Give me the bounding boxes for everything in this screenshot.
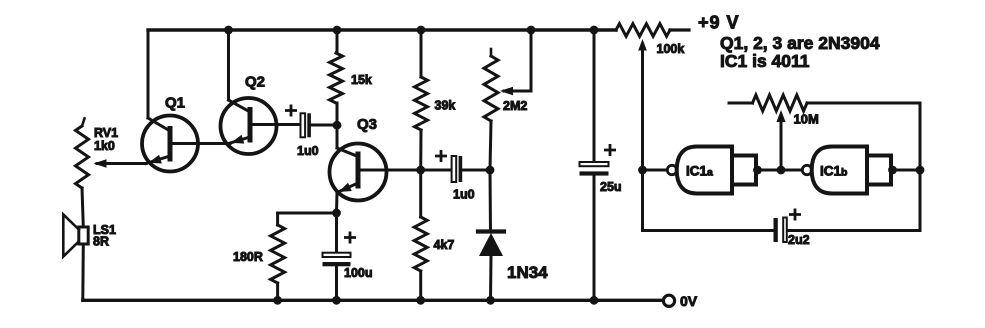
resistor 39k [415,30,428,170]
wire 2M2 wiper feed [504,30,531,91]
svg-text:2M2: 2M2 [503,99,527,113]
potentiometer 2M2 [484,49,498,170]
wire LS1 to 0V rail [81,244,85,300]
node gnd 100u [332,296,341,305]
label 1k0 [94,139,115,153]
svg-text:100k: 100k [657,42,685,56]
wire Q1 emitter to RV1 wiper [97,162,146,165]
label 2u2 [788,233,810,247]
wire 25u to gnd [593,176,596,301]
note Q1,2,3 are 2N3904 [720,33,880,53]
wire Q3 emitter down [335,193,339,214]
svg-text:IC1b: IC1b [820,164,847,179]
label 1u0 (second) [453,188,475,202]
label 1N34 [507,263,548,282]
label 4k7 [434,238,455,252]
node IC1a input [638,166,647,175]
NAND gate IC1a [667,147,756,194]
wire IC1a output to IC1b input [756,169,802,172]
resistor 10M [729,95,920,111]
label 100k [657,42,685,56]
wire emitter node to 180R [278,213,337,225]
svg-text:25u: 25u [600,180,622,194]
resistor 15k [330,30,343,125]
node gnd 25u [590,296,599,305]
label 39k [435,99,456,113]
svg-text:RV1: RV1 [94,126,118,140]
label 1u0 (first) [297,144,319,158]
svg-text:100u: 100u [344,266,373,280]
wire cap to node 15k [311,124,337,127]
wire Q2 collector to rail [227,30,230,100]
wiper arrow 10M [776,110,785,170]
wire 0V bottom rail [83,299,663,302]
node right leg [916,166,925,175]
svg-text:IC1 is 4011: IC1 is 4011 [720,51,810,71]
svg-text:1N34: 1N34 [507,263,548,282]
label IC1b [820,164,847,179]
polarity + (1u0) [286,106,295,115]
svg-text:15k: 15k [351,73,372,87]
note IC1 is 4011 [720,51,810,71]
svg-text:Q2: Q2 [245,74,265,91]
label 180R [233,250,263,264]
label 0V [680,293,698,309]
label IC1a [686,164,713,179]
transistor Q3 [330,144,421,201]
wire 100k to +9V stub [670,28,689,31]
node top rail / Q2 collector [224,26,233,35]
label 10M [794,112,819,127]
NAND gate IC1b [802,147,891,194]
transistor Q2 [221,98,302,154]
svg-text:1k0: 1k0 [94,139,115,153]
polarity + (1u0 #2) [436,151,445,160]
diode 1N34 [478,232,504,257]
svg-text:10M: 10M [794,112,819,127]
potentiometer RV 100k [616,24,670,37]
capacitor 25u [580,162,609,176]
polarity + (100u) [345,233,354,242]
svg-text:Q3: Q3 [357,116,377,133]
wire right leg [919,103,922,231]
node gnd 1N34 [486,296,495,305]
wire IC1b output to right leg [891,169,920,172]
node cap/2M2/1N34 [486,166,495,175]
resistor 180R [271,225,285,300]
capacitor 2u2 [774,218,787,243]
node Q3 emitter / 180R / 100u [332,209,341,218]
label Q2 [245,74,265,91]
svg-text:1u0: 1u0 [297,144,319,158]
node 10M wiper junction [777,166,786,175]
label 100u [344,266,373,280]
label LS1 [93,223,116,237]
label 15k [351,73,372,87]
wire node to Q3 base [337,125,358,157]
label 2M2 [503,99,527,113]
wiper arrow 100k [638,39,647,170]
label 25u [600,180,622,194]
svg-text:8R: 8R [93,235,109,249]
svg-text:4k7: 4k7 [434,238,455,252]
wire collector node to cap [421,169,452,172]
wire RV1 to LS1 [82,188,83,227]
label +9 V [698,13,740,33]
wire 100k wiper down to IC1a input [641,170,644,231]
label Q3 [357,116,377,133]
node top rail / 39k [417,26,426,35]
capacitor C 1u0 (output coupling) [452,156,463,182]
capacitor 100u [323,253,351,267]
wire Q1 collector to rail [147,30,150,118]
resistor 4k7 [414,170,427,300]
svg-text:Q1: Q1 [165,95,185,112]
svg-text:1u0: 1u0 [453,188,475,202]
node top rail / 25u [590,26,599,35]
node IC1b output [888,166,897,175]
label Q1 [165,95,185,112]
node top rail / 2M2 wiper feed [527,26,536,35]
node top rail / 15k [333,26,342,35]
wire node to 1N34 [489,170,493,232]
wire feedback bottom left [643,229,774,232]
node Q3 collector / 39k / 4k7 [416,166,425,175]
wire 100u to gnd [335,266,338,300]
svg-text:2u2: 2u2 [788,233,810,247]
svg-text:+9 V: +9 V [698,13,740,33]
label 8R [93,235,109,249]
svg-text:180R: 180R [233,250,263,264]
polarity + (25u) [605,145,614,154]
wiper arrow 2M2 [500,87,513,96]
svg-text:Q1, 2, 3 are 2N3904: Q1, 2, 3 are 2N3904 [720,33,880,53]
wire 1N34 to gnd [489,256,493,300]
loudspeaker LS1 8R [63,215,88,257]
wire rail to 25u [593,30,596,160]
node IC1a output [753,166,762,175]
node gnd 180R [273,296,282,305]
node 15k/cap/Q3 base [333,121,342,130]
wire emitter node to 100u [335,213,338,253]
transistor Q1 [142,116,230,172]
wire IC1a input [643,169,668,172]
wire feedback bottom right [788,229,921,232]
wiper arrow RV1 [94,159,107,168]
wire +9V top rail [148,28,616,31]
svg-text:IC1a: IC1a [686,164,713,179]
node gnd 4k7 [416,296,425,305]
label RV1 [94,126,118,140]
wire cap to diode node [462,169,490,172]
svg-text:39k: 39k [435,99,456,113]
capacitor C 1u0 (Q2 base coupling) [301,113,311,137]
terminal 0V [663,295,674,306]
potentiometer RV1 1k0 [76,119,89,189]
polarity + (2u2) [790,210,799,219]
svg-text:0V: 0V [680,293,698,309]
